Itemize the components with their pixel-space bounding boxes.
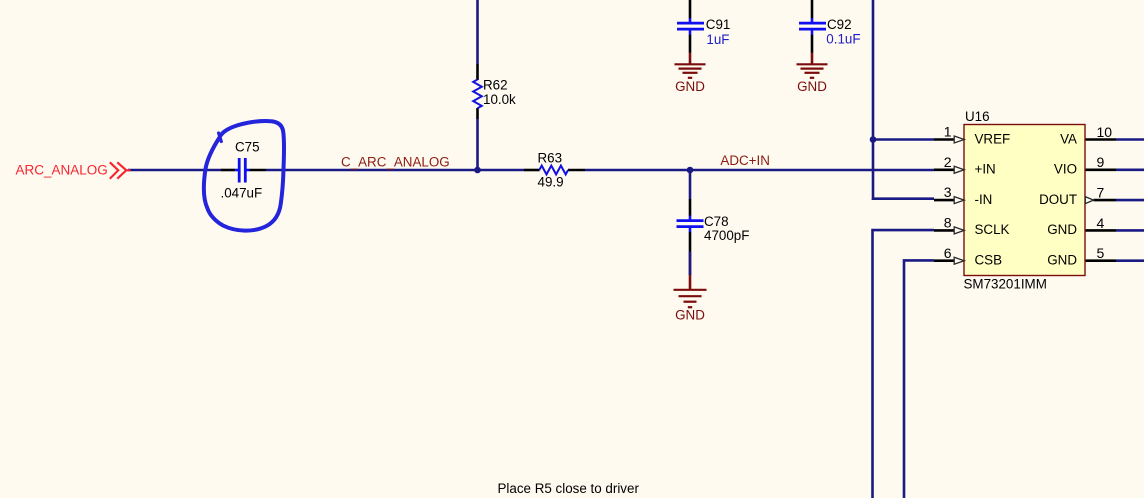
svg-text:ADC+IN: ADC+IN xyxy=(720,153,769,168)
svg-text:GND: GND xyxy=(1047,222,1077,237)
svg-text:1uF: 1uF xyxy=(706,32,729,47)
svg-text:C75: C75 xyxy=(235,140,260,155)
svg-text:R62: R62 xyxy=(483,78,508,93)
svg-text:Place R5 close to driver: Place R5 close to driver xyxy=(498,481,640,496)
svg-text:R63: R63 xyxy=(538,150,563,165)
svg-text:1: 1 xyxy=(944,124,952,140)
svg-text:10: 10 xyxy=(1097,124,1113,140)
svg-text:GND: GND xyxy=(797,79,827,94)
svg-text:49.9: 49.9 xyxy=(538,174,564,189)
svg-text:GND: GND xyxy=(675,308,705,323)
svg-text:C91: C91 xyxy=(706,17,731,32)
svg-text:4: 4 xyxy=(1097,215,1105,231)
svg-text:C78: C78 xyxy=(704,214,729,229)
svg-text:-IN: -IN xyxy=(975,192,993,207)
svg-text:C_ARC_ANALOG: C_ARC_ANALOG xyxy=(341,154,450,169)
svg-text:5: 5 xyxy=(1097,245,1105,261)
svg-text:GND: GND xyxy=(1047,253,1077,268)
svg-text:+IN: +IN xyxy=(975,162,996,177)
svg-text:2: 2 xyxy=(944,154,952,170)
svg-text:CSB: CSB xyxy=(975,253,1003,268)
svg-text:GND: GND xyxy=(675,79,705,94)
svg-text:U16: U16 xyxy=(965,109,990,124)
svg-text:7: 7 xyxy=(1097,185,1105,201)
svg-text:.047uF: .047uF xyxy=(221,186,263,201)
svg-text:C92: C92 xyxy=(827,17,852,32)
svg-text:VA: VA xyxy=(1060,131,1077,146)
svg-text:0.1uF: 0.1uF xyxy=(826,31,860,46)
svg-text:ARC_ANALOG: ARC_ANALOG xyxy=(16,163,108,178)
svg-text:VIO: VIO xyxy=(1054,162,1077,177)
svg-text:SCLK: SCLK xyxy=(975,222,1010,237)
svg-text:SM73201IMM: SM73201IMM xyxy=(964,277,1047,292)
svg-text:DOUT: DOUT xyxy=(1039,192,1077,207)
svg-text:10.0k: 10.0k xyxy=(483,92,516,107)
svg-text:3: 3 xyxy=(944,184,952,200)
svg-text:6: 6 xyxy=(944,245,952,261)
svg-text:VREF: VREF xyxy=(975,131,1011,146)
svg-text:8: 8 xyxy=(944,215,952,231)
svg-text:9: 9 xyxy=(1097,154,1105,170)
svg-text:4700pF: 4700pF xyxy=(704,228,749,243)
